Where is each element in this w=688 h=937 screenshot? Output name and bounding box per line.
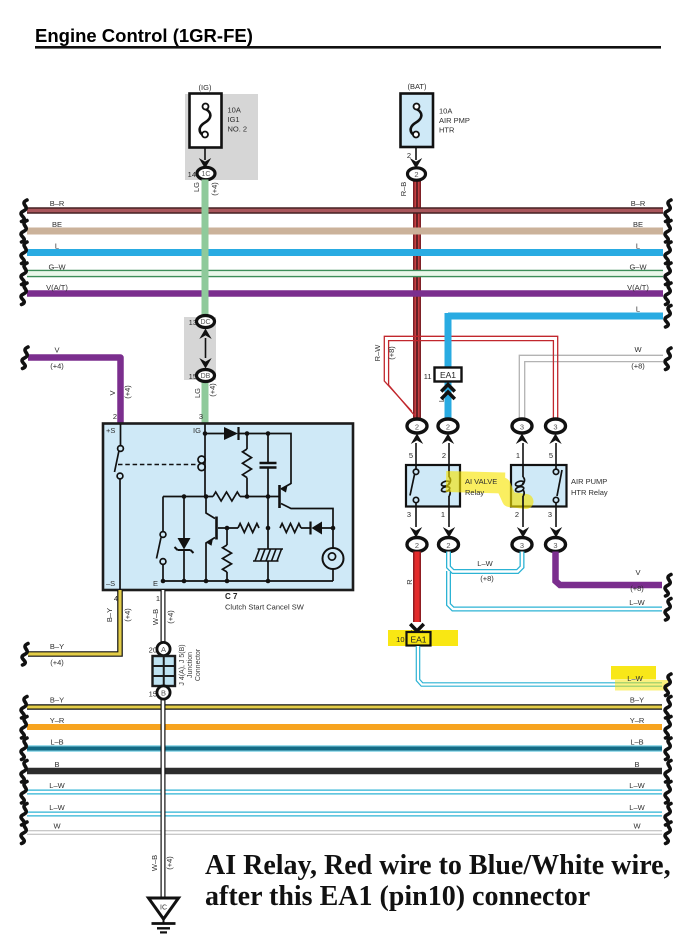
svg-text:14: 14 bbox=[188, 170, 196, 179]
svg-text:W: W bbox=[634, 345, 642, 354]
svg-text:R–B: R–B bbox=[399, 182, 408, 197]
svg-text:EA1: EA1 bbox=[440, 370, 456, 380]
svg-text:IC: IC bbox=[160, 905, 167, 912]
svg-text:(+8): (+8) bbox=[631, 362, 645, 371]
svg-text:1: 1 bbox=[156, 594, 160, 603]
svg-text:V(A/T): V(A/T) bbox=[627, 283, 649, 292]
svg-text:3: 3 bbox=[520, 541, 524, 550]
svg-text:3: 3 bbox=[407, 510, 411, 519]
svg-text:2: 2 bbox=[446, 423, 450, 432]
svg-text:AI Relay, Red wire to Blue/Whi: AI Relay, Red wire to Blue/White wire, bbox=[205, 850, 671, 881]
svg-text:DB: DB bbox=[201, 373, 211, 380]
svg-text:L: L bbox=[636, 242, 640, 251]
svg-text:W–B: W–B bbox=[151, 609, 160, 625]
svg-text:V: V bbox=[108, 390, 117, 395]
svg-text:IG: IG bbox=[193, 426, 201, 435]
svg-text:(+8): (+8) bbox=[630, 584, 644, 593]
svg-text:(+8): (+8) bbox=[387, 346, 396, 360]
svg-text:V: V bbox=[635, 568, 640, 577]
svg-text:B: B bbox=[54, 760, 59, 769]
svg-text:Y–R: Y–R bbox=[630, 716, 645, 725]
svg-text:LG: LG bbox=[193, 388, 202, 398]
svg-text:5: 5 bbox=[409, 451, 413, 460]
svg-text:L–B: L–B bbox=[630, 738, 643, 747]
svg-text:2: 2 bbox=[113, 412, 117, 421]
svg-text:L: L bbox=[55, 242, 59, 251]
svg-text:G–W: G–W bbox=[48, 263, 66, 272]
svg-text:J 4(A), J 5(B): J 4(A), J 5(B) bbox=[179, 644, 186, 685]
svg-text:BE: BE bbox=[52, 220, 62, 229]
svg-text:B: B bbox=[161, 689, 166, 698]
svg-text:L–W: L–W bbox=[49, 781, 65, 790]
svg-text:L–W: L–W bbox=[629, 781, 645, 790]
svg-text:B–R: B–R bbox=[50, 199, 65, 208]
svg-text:R–W: R–W bbox=[373, 344, 382, 362]
svg-text:B–Y: B–Y bbox=[50, 642, 64, 651]
svg-text:L–W: L–W bbox=[49, 803, 65, 812]
svg-text:BE: BE bbox=[633, 220, 643, 229]
svg-text:2: 2 bbox=[515, 510, 519, 519]
svg-text:(+4): (+4) bbox=[50, 362, 64, 371]
svg-text:C 7: C 7 bbox=[225, 592, 238, 601]
svg-text:11: 11 bbox=[424, 372, 432, 381]
svg-text:V(A/T): V(A/T) bbox=[46, 283, 68, 292]
svg-text:EA1: EA1 bbox=[410, 635, 426, 645]
svg-text:L: L bbox=[636, 305, 640, 314]
svg-text:–S: –S bbox=[106, 579, 115, 588]
svg-text:(+4): (+4) bbox=[165, 856, 174, 870]
svg-text:+S: +S bbox=[106, 426, 115, 435]
svg-text:LG: LG bbox=[192, 182, 201, 192]
svg-text:R: R bbox=[405, 579, 414, 585]
svg-text:10: 10 bbox=[396, 635, 404, 644]
svg-text:(IG): (IG) bbox=[199, 83, 212, 92]
svg-text:HTR: HTR bbox=[439, 126, 455, 135]
svg-text:3: 3 bbox=[199, 412, 203, 421]
svg-text:2: 2 bbox=[442, 451, 446, 460]
svg-text:10A: 10A bbox=[439, 107, 452, 116]
svg-text:1C: 1C bbox=[202, 171, 211, 178]
svg-text:5: 5 bbox=[549, 451, 553, 460]
svg-text:A: A bbox=[161, 645, 166, 654]
svg-text:L–W: L–W bbox=[627, 674, 643, 683]
svg-text:(BAT): (BAT) bbox=[407, 82, 427, 91]
svg-text:Junction: Junction bbox=[187, 652, 194, 678]
svg-text:(+8): (+8) bbox=[480, 574, 494, 583]
svg-text:W: W bbox=[53, 822, 61, 831]
svg-text:3: 3 bbox=[548, 510, 552, 519]
svg-text:DC: DC bbox=[200, 319, 210, 326]
svg-text:IG1: IG1 bbox=[228, 115, 240, 124]
svg-text:B: B bbox=[634, 760, 639, 769]
svg-text:3: 3 bbox=[553, 541, 557, 550]
svg-text:AIR PUMP: AIR PUMP bbox=[571, 477, 607, 486]
svg-text:Engine Control (1GR-FE): Engine Control (1GR-FE) bbox=[35, 25, 253, 46]
svg-text:2: 2 bbox=[414, 170, 418, 179]
svg-text:L–B: L–B bbox=[50, 738, 63, 747]
svg-text:L–W: L–W bbox=[629, 598, 645, 607]
svg-text:HTR Relay: HTR Relay bbox=[571, 488, 608, 497]
svg-text:Clutch Start Cancel SW: Clutch Start Cancel SW bbox=[225, 603, 305, 612]
svg-text:Relay: Relay bbox=[465, 488, 484, 497]
svg-text:after this EA1 (pin10) connect: after this EA1 (pin10) connector bbox=[205, 881, 590, 912]
svg-text:1: 1 bbox=[516, 451, 520, 460]
svg-text:3: 3 bbox=[520, 423, 524, 432]
svg-text:(+4): (+4) bbox=[123, 608, 132, 622]
svg-text:L–W: L–W bbox=[477, 559, 493, 568]
svg-text:(+4): (+4) bbox=[123, 385, 132, 399]
svg-text:2: 2 bbox=[446, 541, 450, 550]
svg-text:1: 1 bbox=[441, 510, 445, 519]
svg-text:10A: 10A bbox=[228, 106, 241, 115]
svg-text:B–Y: B–Y bbox=[630, 696, 644, 705]
svg-text:3: 3 bbox=[553, 423, 557, 432]
svg-text:B–Y: B–Y bbox=[50, 696, 64, 705]
svg-text:E: E bbox=[153, 579, 158, 588]
svg-text:B–R: B–R bbox=[631, 199, 646, 208]
svg-text:L–W: L–W bbox=[629, 803, 645, 812]
svg-text:W: W bbox=[633, 822, 641, 831]
svg-text:(+4): (+4) bbox=[50, 658, 64, 667]
svg-text:Y–R: Y–R bbox=[50, 716, 65, 725]
svg-text:W–B: W–B bbox=[150, 855, 159, 871]
svg-text:G–W: G–W bbox=[629, 263, 647, 272]
svg-text:(+4): (+4) bbox=[210, 182, 219, 196]
svg-text:V: V bbox=[54, 346, 59, 355]
svg-text:NO. 2: NO. 2 bbox=[228, 125, 248, 134]
svg-text:AI VALVE: AI VALVE bbox=[465, 477, 497, 486]
svg-text:B–Y: B–Y bbox=[105, 608, 114, 622]
svg-text:(+4): (+4) bbox=[166, 610, 175, 624]
svg-text:L: L bbox=[437, 398, 446, 402]
svg-text:Connector: Connector bbox=[195, 648, 202, 681]
svg-text:2: 2 bbox=[415, 541, 419, 550]
svg-text:(+4): (+4) bbox=[208, 383, 217, 397]
svg-text:2: 2 bbox=[415, 423, 419, 432]
svg-text:AIR PMP: AIR PMP bbox=[439, 116, 470, 125]
